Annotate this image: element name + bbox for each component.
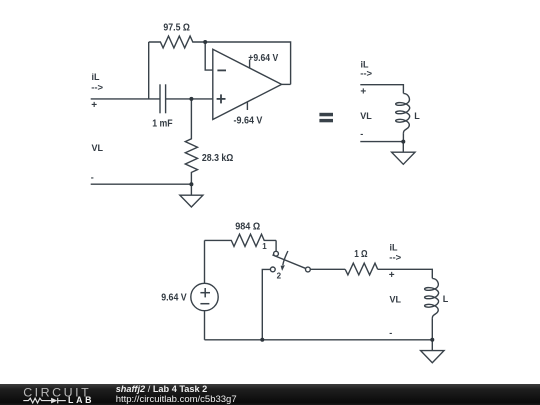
- svg-text:-->: -->: [389, 252, 401, 263]
- ground G3: [421, 340, 444, 363]
- node: terminal 2 branch junction: [260, 338, 264, 342]
- wire: 1 ohm resistor to inductor top: [378, 269, 433, 278]
- inductor L (equivalent circuit): [396, 93, 410, 133]
- op-amp U1 triangle: [213, 49, 282, 119]
- svg-text:http://circuitlab.com/c5b33g7: http://circuitlab.com/c5b33g7: [116, 394, 237, 405]
- inductor L2 (bottom circuit): [425, 278, 439, 318]
- switch SW1 common terminal circle: [306, 267, 311, 272]
- wire: feedback top to output vertical: [205, 42, 290, 84]
- wire: common to 1 ohm resistor: [310, 268, 345, 270]
- svg-text:shaffj2 / Lab 4 Task 2: shaffj2 / Lab 4 Task 2: [116, 384, 208, 394]
- wire: node to inverting input: [205, 42, 213, 70]
- wire: equivalent circuit inductor bottom: [402, 133, 404, 141]
- wire: op-amp circuit bottom stub: [91, 183, 192, 185]
- voltage source V1 plus symbol: [200, 288, 210, 297]
- svg-text:+: +: [91, 100, 97, 111]
- wire: bottom circuit left vertical bottom: [204, 311, 206, 340]
- switch SW1 terminal 2 circle: [270, 267, 275, 272]
- wire: op-amp output: [282, 83, 291, 85]
- op-amp U1 plus input symbol: [217, 94, 226, 103]
- footer logo resistor-diode symbol: [23, 398, 66, 404]
- svg-text:1: 1: [262, 242, 267, 251]
- switch SW1 arm: [272, 255, 305, 268]
- svg-text:VL: VL: [390, 294, 402, 304]
- svg-text:9.64 V: 9.64 V: [161, 292, 187, 303]
- op-amp negative supply pin tick: [246, 102, 248, 110]
- svg-text:VL: VL: [92, 143, 104, 153]
- svg-text:-: -: [389, 328, 392, 338]
- svg-text:+9.64 V: +9.64 V: [248, 53, 278, 64]
- resistor R4 1 ohm zigzag: [345, 263, 378, 275]
- wire: bottom circuit bottom rail: [205, 339, 433, 341]
- svg-text:L: L: [443, 294, 449, 304]
- wire: op-amp circuit top input stub: [91, 98, 160, 100]
- wire: inductor bottom to ground node: [431, 318, 433, 340]
- switch SW1 terminal 1 circle: [274, 251, 279, 256]
- voltage source V1 circle: [191, 283, 218, 310]
- resistor R1 97.5 ohm zigzag: [149, 36, 206, 48]
- switch SW1 actuate arrow: [281, 251, 288, 271]
- capacitor C1 plates: [160, 84, 166, 113]
- node: feedback junction: [203, 40, 207, 44]
- wire: feedback left vertical: [148, 42, 150, 99]
- wire: resistor to switch terminal 1: [275, 240, 277, 251]
- svg-text:-: -: [91, 172, 94, 182]
- svg-text:iL: iL: [92, 72, 101, 82]
- svg-text:-->: -->: [360, 68, 372, 79]
- svg-text:2: 2: [277, 271, 282, 280]
- svg-text:iL: iL: [390, 242, 399, 252]
- wire: equivalent circuit top: [360, 85, 403, 94]
- svg-text:984 Ω: 984 Ω: [235, 221, 260, 232]
- ground G1: [180, 184, 203, 207]
- op-amp positive supply pin tick: [249, 60, 251, 69]
- svg-text:28.3 kΩ: 28.3 kΩ: [202, 153, 233, 164]
- footer bar: [0, 384, 540, 405]
- svg-text:-: -: [360, 129, 363, 139]
- ground G2: [392, 142, 415, 165]
- wire: bottom circuit left vertical top: [204, 240, 206, 283]
- svg-text:LAB: LAB: [68, 395, 94, 405]
- node: noninverting input junction: [189, 97, 193, 101]
- svg-text:1 Ω: 1 Ω: [354, 249, 367, 260]
- svg-text:-->: -->: [91, 83, 103, 94]
- node: equivalent circuit ground junction: [401, 140, 405, 144]
- svg-text:L: L: [414, 111, 420, 121]
- svg-text:VL: VL: [360, 111, 372, 121]
- wire: terminal 2 branch: [262, 269, 270, 339]
- resistor R3 984 ohm zigzag: [205, 234, 277, 246]
- node: bottom right ground junction: [430, 338, 434, 342]
- wire: capacitor to op-amp noninverting input: [166, 98, 213, 100]
- voltage source V1 minus symbol: [200, 303, 209, 305]
- svg-text:-9.64 V: -9.64 V: [234, 115, 263, 126]
- svg-text:+: +: [360, 87, 366, 98]
- node: bottom ground junction (op-amp circuit): [189, 182, 193, 186]
- svg-text:+: +: [389, 270, 395, 281]
- svg-text:1 mF: 1 mF: [152, 118, 172, 129]
- resistor R2 28.3k vertical zigzag: [185, 99, 197, 184]
- equals sign: [319, 113, 333, 123]
- svg-text:97.5 Ω: 97.5 Ω: [163, 22, 190, 33]
- wire: equivalent circuit bottom: [360, 141, 403, 143]
- op-amp U1 minus input symbol: [217, 69, 226, 71]
